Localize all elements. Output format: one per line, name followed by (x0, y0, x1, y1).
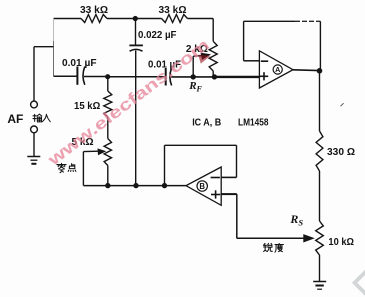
svg-text:B: B (199, 182, 205, 191)
svg-text:IC A, B: IC A, B (192, 116, 221, 128)
svg-text:0.022 µF: 0.022 µF (138, 29, 177, 41)
svg-text:0.01 µF: 0.01 µF (62, 57, 97, 69)
svg-text:A: A (275, 65, 280, 74)
svg-text:LM1458: LM1458 (238, 116, 269, 128)
svg-text:33 kΩ: 33 kΩ (80, 4, 108, 16)
svg-text:33 kΩ: 33 kΩ (159, 4, 187, 16)
svg-text:10 kΩ: 10 kΩ (328, 236, 354, 248)
svg-text:15 kΩ: 15 kΩ (74, 100, 100, 112)
svg-text:AF: AF (7, 112, 23, 126)
svg-text:330 Ω: 330 Ω (327, 146, 355, 158)
